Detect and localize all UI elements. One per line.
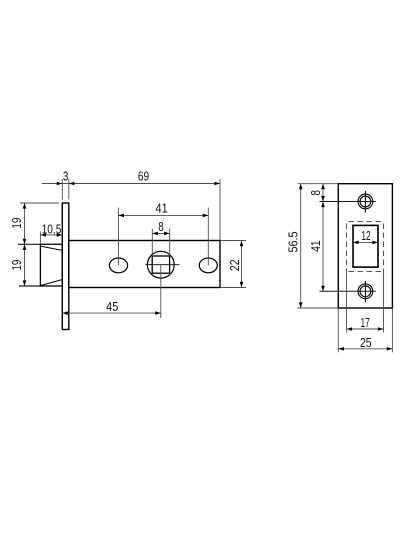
dashed latch-box outline 17 wide <box>347 222 384 272</box>
arrow 41 right <box>203 214 209 218</box>
arrow 56.5 bottom <box>299 302 303 308</box>
svg-text:41: 41 <box>156 201 168 216</box>
top screw vertical centerline <box>364 191 366 213</box>
bolt bevel line bottom <box>41 280 63 286</box>
arrowheads left view <box>23 182 244 315</box>
dim 10,5 line <box>40 234 62 236</box>
arrow 22 top <box>240 241 244 247</box>
dim 12 line <box>353 241 378 243</box>
labels left view <box>9 168 242 314</box>
dim 22 line (right of body) <box>241 241 243 288</box>
svg-text:56.5: 56.5 <box>286 231 301 252</box>
arrow 3 left (points right, tip at faceplate left) <box>57 182 63 186</box>
svg-text:8: 8 <box>158 219 164 234</box>
svg-text:25: 25 <box>360 335 372 350</box>
arrow 25 right <box>387 347 393 351</box>
arrowheads right view <box>299 184 393 351</box>
arrow 19 mid down <box>23 239 27 245</box>
arrow 3 right / 69 left (points left, tip at faceplate right) <box>69 182 75 186</box>
dim 19 top vertical line <box>24 203 26 286</box>
svg-text:12: 12 <box>361 228 370 243</box>
svg-text:10,5: 10,5 <box>42 221 62 236</box>
ext line body top right (for 22) <box>220 240 246 242</box>
dim 8 line (top) <box>152 232 169 234</box>
ext line right hole center <box>207 208 209 266</box>
ext line bolt left edge up (for 10,5) <box>39 231 41 244</box>
arrow 17 right <box>378 327 384 331</box>
ext line left hole center <box>117 208 119 266</box>
left oval hole <box>109 258 127 273</box>
top screw hole inner <box>360 196 371 207</box>
svg-text:45: 45 <box>106 299 118 314</box>
arrow 69 right (points right) <box>214 182 220 186</box>
ext/center line at bolt top (19/19 boundary) <box>18 243 62 245</box>
svg-text:19: 19 <box>9 260 24 271</box>
arrow 10,5 left <box>40 233 46 237</box>
ext line faceplate right (for 3/69) <box>68 179 70 200</box>
bottom screw vertical centerline <box>364 281 366 303</box>
ext line faceplate top (for 19) <box>20 202 59 204</box>
arrow 41 left <box>118 214 124 218</box>
spindle hub circle <box>147 251 174 278</box>
bolt bevel line top <box>41 246 62 250</box>
arrow 22 bottom <box>240 282 244 288</box>
arrow 17 left <box>347 327 353 331</box>
right oval hole <box>199 258 217 273</box>
bottom screw hole outer <box>358 284 373 299</box>
svg-text:22: 22 <box>227 259 242 271</box>
spindle square hole 8mm <box>152 256 169 273</box>
hub horizontal centerline <box>146 264 180 266</box>
ext line plate top-left (for 56.5/8) <box>298 183 339 185</box>
top screw hole outer <box>358 194 373 209</box>
ext line bottom screw center (horiz through screw) <box>320 290 376 292</box>
ext line top screw center (horiz through screw) <box>320 201 376 203</box>
arrow 56.5 top <box>299 184 303 190</box>
ext line square right <box>169 229 171 257</box>
ext line body right edge (for 69) <box>219 179 221 241</box>
dim 56.5 vertical line <box>300 184 302 308</box>
arrow 45 right <box>155 311 161 315</box>
arrow 12 right <box>372 241 378 245</box>
ext line square center down (for 45) <box>160 265 162 318</box>
bottom screw hole inner <box>360 286 371 297</box>
ext line faceplate left (for 3) <box>61 179 63 200</box>
labels right view <box>286 190 372 350</box>
svg-text:8: 8 <box>308 190 323 196</box>
arrow 45 left <box>62 311 68 315</box>
strike plate outline 25 x 56.5 <box>338 184 392 308</box>
arrow 41 bottom <box>321 286 325 292</box>
dim line 3 and 69 (shared horizontal) <box>42 183 220 185</box>
ext line body bottom right (for 22) <box>220 287 246 289</box>
ext line bolt bottom (for 19) <box>19 285 40 287</box>
dim 45 line <box>62 312 161 314</box>
arrow 25 left <box>338 347 344 351</box>
latch hole rectangle 12 wide <box>353 225 378 267</box>
ext line plate right down (for 25) <box>391 308 393 352</box>
faceplate (front plate, 3mm) <box>62 203 69 330</box>
dim 41 line (top) <box>118 214 208 216</box>
arrow 19 mid up <box>23 244 27 250</box>
latch case body (69 x 22) <box>69 241 220 288</box>
ext line plate left down (for 25) <box>337 308 339 352</box>
ext line dashed-left down (for 17) <box>346 272 348 333</box>
ext line dashed-right down (for 17) <box>383 272 385 333</box>
svg-text:41: 41 <box>308 240 323 251</box>
dim 8 + 41 shared vertical line <box>322 184 324 292</box>
svg-text:17: 17 <box>360 315 369 330</box>
arrow 8 right <box>164 232 170 236</box>
arrow 8 top <box>321 184 325 190</box>
dim 17 line <box>347 328 384 330</box>
svg-text:19: 19 <box>9 218 24 229</box>
svg-text:69: 69 <box>138 169 149 184</box>
arrow 8 bottom <box>321 196 325 202</box>
latch bolt <box>40 244 62 286</box>
arrow 41 top <box>321 202 325 208</box>
dim 25 line <box>338 348 392 350</box>
arrow 19 bottom down <box>23 280 27 286</box>
arrow 10,5 right <box>57 233 63 237</box>
arrow 19 top up <box>23 203 27 209</box>
svg-text:3: 3 <box>63 168 69 183</box>
ext line plate bottom-left (for 56.5) <box>298 307 339 309</box>
arrow 12 left <box>353 241 359 245</box>
arrow 8 left <box>152 232 158 236</box>
ext line square left <box>151 229 153 257</box>
